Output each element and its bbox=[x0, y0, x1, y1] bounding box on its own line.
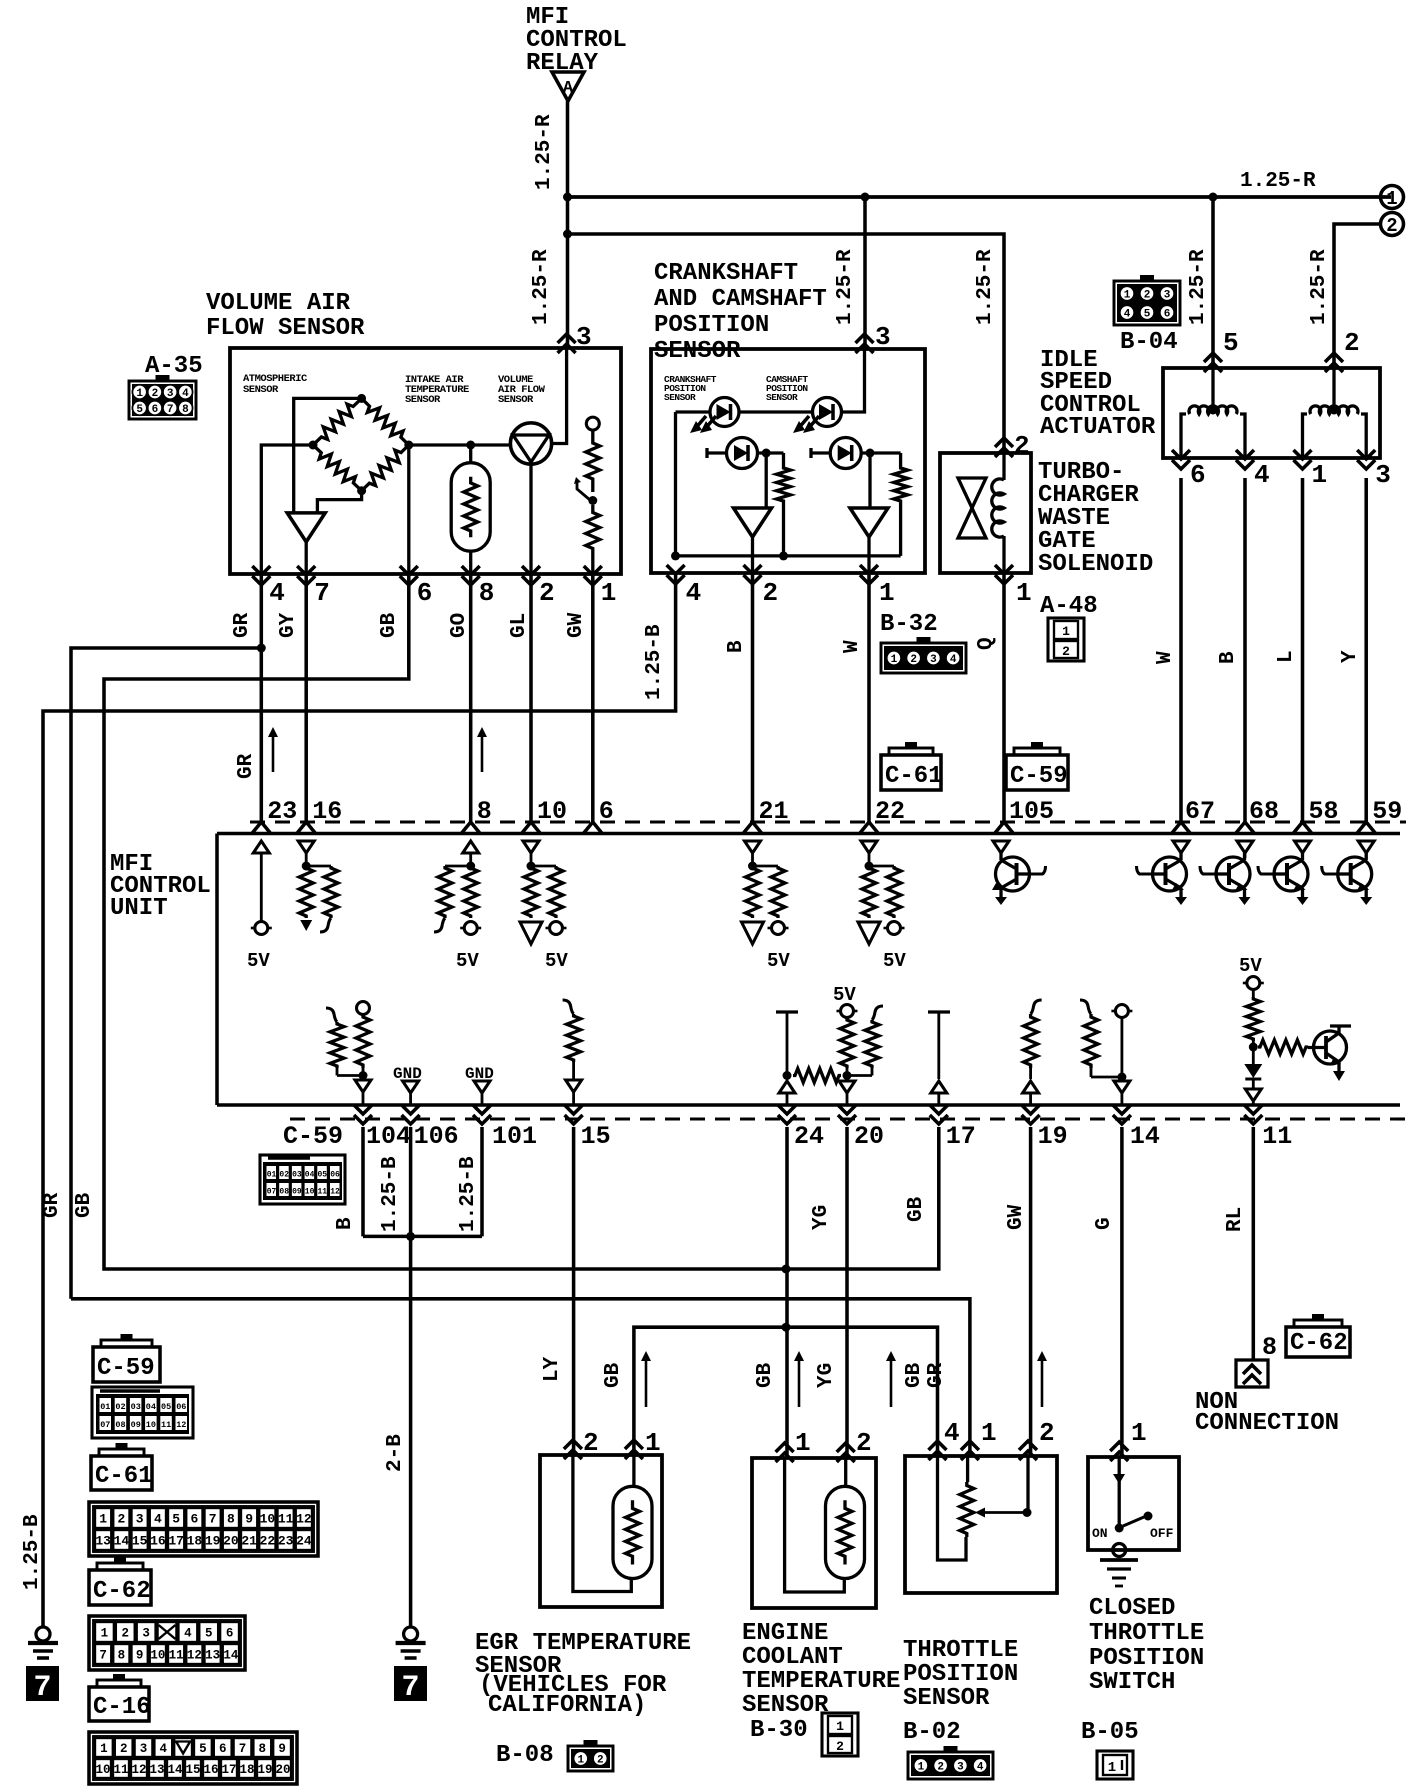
VAF pin 1 bbox=[584, 566, 617, 608]
svg-text:14: 14 bbox=[1130, 1122, 1160, 1151]
ISC pin 4 bbox=[1236, 450, 1270, 490]
svg-text:10: 10 bbox=[260, 1512, 276, 1527]
bridge resistor (top-right) bbox=[362, 398, 409, 445]
photodiode crank bbox=[727, 438, 758, 469]
wire 1.25-R to ISC pin 5 bbox=[1211, 197, 1215, 368]
terminal circle 2 bbox=[1381, 213, 1404, 236]
TPS wiper bbox=[975, 1508, 1032, 1518]
svg-text:CLOSED: CLOSED bbox=[1089, 1595, 1175, 1622]
volume air flow sensor title bbox=[206, 290, 365, 342]
VAF pin 7 bbox=[297, 566, 330, 608]
svg-text:1: 1 bbox=[136, 388, 143, 400]
svg-text:04: 04 bbox=[146, 1402, 156, 1412]
svg-text:2: 2 bbox=[597, 1754, 604, 1766]
pin 3 chevron (VAF) bbox=[558, 334, 576, 343]
MFI pin 21 bbox=[744, 797, 789, 833]
pin24-pin20 bias resistor bbox=[793, 1069, 841, 1083]
MFI control relay terminal A (triangle) bbox=[552, 72, 584, 101]
svg-text:B: B bbox=[725, 640, 748, 653]
svg-text:16: 16 bbox=[312, 797, 342, 826]
bridge top node bbox=[357, 394, 366, 403]
MFI pin 23 bbox=[252, 797, 297, 833]
svg-text:1: 1 bbox=[1131, 1418, 1147, 1448]
svg-text:GB: GB bbox=[378, 612, 401, 638]
svg-text:1: 1 bbox=[795, 1428, 811, 1458]
connector C-61 tag (list) bbox=[91, 1443, 153, 1490]
pin24 internal bbox=[776, 1012, 798, 1105]
pin68 internal transistor bbox=[1200, 841, 1253, 905]
svg-text:1.25-B: 1.25-B bbox=[379, 1156, 402, 1232]
svg-text:4: 4 bbox=[269, 578, 285, 608]
svg-text:VOLUME AIR: VOLUME AIR bbox=[206, 290, 351, 317]
svg-text:GB: GB bbox=[754, 1362, 777, 1388]
sensor ground bus (GB) bbox=[634, 1327, 938, 1456]
svg-text:5: 5 bbox=[1144, 308, 1151, 320]
MFI pin 20 bbox=[838, 1105, 884, 1151]
wire pin3 to LED rail bbox=[842, 349, 865, 412]
GR bus to TPS pin 1 bbox=[71, 1299, 970, 1456]
wire GO (VAF8 to pin8) bbox=[469, 574, 473, 822]
svg-text:59: 59 bbox=[1372, 797, 1402, 826]
pin106 GND bbox=[393, 1065, 422, 1105]
svg-text:14: 14 bbox=[114, 1534, 130, 1549]
volume air flow sensor box bbox=[230, 348, 621, 574]
svg-text:2: 2 bbox=[763, 578, 779, 608]
ground bus dot 1 bbox=[671, 551, 680, 560]
pin59 internal transistor bbox=[1322, 841, 1375, 905]
svg-text:3: 3 bbox=[875, 322, 891, 352]
TPS potentiometer bbox=[938, 1456, 1029, 1560]
waste gate valve symbol bbox=[958, 478, 986, 538]
atmospheric sensor amplifier (op-amp) bbox=[287, 513, 325, 542]
MFI unit outline bbox=[217, 834, 1400, 1106]
intake air temperature sensor label bbox=[405, 374, 469, 406]
svg-text:GB: GB bbox=[905, 1196, 928, 1222]
svg-text:4: 4 bbox=[686, 578, 702, 608]
svg-text:G: G bbox=[1093, 1217, 1116, 1230]
wire GB (VAF6 to left edge, GB bus) bbox=[104, 574, 939, 1269]
pin21 internal resistors bbox=[742, 841, 791, 972]
svg-text:6: 6 bbox=[152, 404, 159, 416]
wire Y (ISC3 to pin59) bbox=[1364, 478, 1368, 822]
svg-text:17: 17 bbox=[221, 1763, 236, 1777]
TPS box bbox=[905, 1456, 1057, 1593]
wire GY (VAF7 to pin16) bbox=[304, 574, 308, 822]
svg-text:1.25-R: 1.25-R bbox=[1240, 170, 1316, 193]
svg-text:04: 04 bbox=[305, 1171, 315, 1180]
light rays (cam) bbox=[793, 416, 819, 433]
MFI pin 24 bbox=[778, 1105, 824, 1151]
connector C-16 pin map (20 pin) bbox=[89, 1732, 297, 1784]
svg-text:GW: GW bbox=[565, 612, 588, 638]
main 1.25-R bus to terminal 1 bbox=[568, 195, 1392, 199]
svg-text:7: 7 bbox=[167, 404, 174, 416]
svg-text:3: 3 bbox=[1375, 460, 1391, 490]
ECT pin 1 bbox=[776, 1428, 811, 1462]
svg-text:8: 8 bbox=[182, 404, 189, 416]
svg-text:1: 1 bbox=[99, 1512, 107, 1527]
svg-text:POSITION: POSITION bbox=[654, 312, 769, 339]
svg-text:B: B bbox=[1217, 651, 1240, 664]
connector C-62 pin map (14 pin) bbox=[89, 1616, 245, 1670]
light rays (crank) bbox=[690, 416, 716, 433]
intake air temp thermistor bbox=[451, 445, 490, 574]
svg-text:9: 9 bbox=[136, 1649, 144, 1663]
crank load resistor bbox=[777, 453, 791, 556]
svg-text:101: 101 bbox=[492, 1122, 537, 1151]
svg-text:08: 08 bbox=[279, 1188, 289, 1197]
svg-text:5V: 5V bbox=[456, 950, 479, 972]
pin101 GND bbox=[465, 1065, 494, 1105]
wire L (ISC1 to pin58) bbox=[1301, 478, 1305, 822]
svg-text:B-02: B-02 bbox=[903, 1719, 961, 1746]
pin22 internal resistors bbox=[858, 841, 906, 972]
svg-text:21: 21 bbox=[759, 797, 789, 826]
svg-text:TEMPERATURE: TEMPERATURE bbox=[742, 1668, 900, 1695]
wire from terminal 2 to ISC pin 2 bbox=[1334, 224, 1380, 368]
EGR pin 1 bbox=[625, 1428, 661, 1459]
arrow up beside pin 23 wire bbox=[272, 735, 275, 772]
svg-text:Y: Y bbox=[1339, 650, 1362, 663]
svg-text:03: 03 bbox=[131, 1402, 141, 1412]
ground code 7 (right) bbox=[394, 1666, 427, 1701]
connector C-16 tag (list) bbox=[89, 1674, 151, 1721]
ground code 7 (left) bbox=[26, 1666, 59, 1701]
sensor ground bus bbox=[676, 554, 901, 557]
svg-text:02: 02 bbox=[279, 1171, 289, 1180]
svg-text:C-61: C-61 bbox=[95, 1463, 153, 1490]
pin16 internal resistors bbox=[298, 841, 338, 932]
svg-text:7: 7 bbox=[401, 1671, 419, 1705]
svg-text:GB: GB bbox=[903, 1362, 926, 1388]
wire to pin 6 bbox=[407, 445, 410, 574]
ISC coil left tap dot bbox=[1209, 406, 1218, 415]
connector B-04 bbox=[1114, 275, 1180, 356]
pin58 internal transistor bbox=[1258, 841, 1311, 905]
svg-text:14: 14 bbox=[223, 1649, 239, 1663]
svg-text:21: 21 bbox=[241, 1534, 257, 1549]
svg-text:11: 11 bbox=[161, 1420, 171, 1430]
switch ground bbox=[1100, 1560, 1138, 1586]
wire bridge left to pin 4 bbox=[261, 445, 313, 574]
VAF pin 4 bbox=[252, 566, 285, 608]
ground (2-B) bbox=[396, 1627, 426, 1658]
svg-text:11: 11 bbox=[1262, 1122, 1292, 1151]
svg-text:B-32: B-32 bbox=[880, 611, 938, 638]
ISC pin 1 bbox=[1294, 450, 1328, 490]
svg-text:GW: GW bbox=[1005, 1204, 1028, 1230]
svg-text:4: 4 bbox=[977, 1761, 984, 1773]
ECT sensor title bbox=[742, 1620, 900, 1719]
svg-text:08: 08 bbox=[115, 1420, 125, 1430]
svg-text:10: 10 bbox=[146, 1420, 156, 1430]
turbo pin 1 bbox=[995, 565, 1032, 608]
crank/cam sensor box bbox=[651, 349, 925, 573]
svg-text:19: 19 bbox=[1038, 1122, 1068, 1151]
pin14 internal bbox=[1080, 1000, 1132, 1105]
wire B (crank2 to pin21) bbox=[751, 574, 755, 822]
ECT sensor box bbox=[752, 1458, 876, 1608]
wire B (ISC4 to pin68) bbox=[1243, 478, 1247, 822]
svg-text:5: 5 bbox=[136, 404, 143, 416]
svg-text:2-B: 2-B bbox=[384, 1434, 407, 1472]
volume air flow sensor label bbox=[498, 374, 546, 406]
svg-text:02: 02 bbox=[115, 1402, 125, 1412]
svg-text:COOLANT: COOLANT bbox=[742, 1644, 843, 1671]
svg-text:A: A bbox=[563, 79, 574, 98]
svg-text:15: 15 bbox=[581, 1122, 611, 1151]
svg-text:10: 10 bbox=[150, 1649, 165, 1663]
svg-text:GY: GY bbox=[277, 612, 300, 638]
svg-text:1: 1 bbox=[981, 1418, 997, 1448]
svg-text:1.25-R: 1.25-R bbox=[834, 249, 857, 325]
svg-text:6: 6 bbox=[599, 797, 614, 826]
svg-text:5: 5 bbox=[199, 1742, 207, 1756]
svg-text:22: 22 bbox=[875, 797, 905, 826]
MFI control unit title bbox=[110, 851, 211, 922]
terminal circle 1 bbox=[1381, 186, 1404, 209]
svg-text:2: 2 bbox=[539, 578, 555, 608]
svg-text:2: 2 bbox=[152, 388, 159, 400]
svg-text:12: 12 bbox=[131, 1763, 146, 1777]
MFI pin 19 bbox=[1022, 1105, 1068, 1151]
wire LY pin15 to EGR pin2 bbox=[572, 1127, 576, 1455]
svg-text:RL: RL bbox=[1224, 1207, 1247, 1232]
wire GB pin24 to ECT pin1 bbox=[785, 1127, 789, 1458]
svg-text:19: 19 bbox=[257, 1763, 272, 1777]
svg-text:14: 14 bbox=[167, 1763, 183, 1777]
svg-text:CRANKSHAFT: CRANKSHAFT bbox=[654, 260, 798, 287]
crank sensor pin 2 bbox=[744, 565, 779, 608]
svg-text:GR: GR bbox=[41, 1192, 64, 1218]
svg-text:1: 1 bbox=[891, 654, 898, 666]
MFI pin 14 bbox=[1113, 1105, 1160, 1151]
svg-text:4: 4 bbox=[944, 1418, 960, 1448]
MFI pin 16 bbox=[297, 797, 342, 833]
wire Q (turbo1 to pin105) bbox=[1002, 574, 1006, 822]
svg-text:10: 10 bbox=[95, 1763, 110, 1777]
svg-text:11: 11 bbox=[278, 1512, 294, 1527]
svg-text:1: 1 bbox=[601, 578, 617, 608]
camshaft position sensor inner label bbox=[766, 374, 808, 403]
MFI top pin dashed row bbox=[250, 820, 1406, 823]
VAF pin 2 bbox=[522, 566, 555, 608]
svg-text:20: 20 bbox=[854, 1122, 884, 1151]
wire W (crank1 to pin22) bbox=[867, 574, 871, 822]
wire 1.25-R to crank sensor pin 3 bbox=[863, 197, 867, 349]
crank sensor pin 4 bbox=[667, 565, 702, 608]
svg-text:SENSOR: SENSOR bbox=[766, 392, 798, 403]
svg-text:8: 8 bbox=[479, 578, 495, 608]
crankshaft and camshaft position sensor title bbox=[654, 260, 827, 365]
svg-text:1.25-B: 1.25-B bbox=[21, 1514, 44, 1590]
turbo pin 2 chevron bbox=[995, 438, 1013, 447]
thermistor junction dot bbox=[466, 441, 475, 450]
pin19 internal resistor bbox=[1023, 1000, 1042, 1105]
LED cam bbox=[813, 398, 842, 427]
svg-text:2: 2 bbox=[910, 654, 917, 666]
svg-text:1.25-R: 1.25-R bbox=[1187, 249, 1210, 325]
svg-text:13: 13 bbox=[95, 1534, 111, 1549]
MFI pin 67 bbox=[1172, 797, 1215, 833]
connector B-02 bbox=[903, 1719, 993, 1779]
svg-text:LY: LY bbox=[541, 1356, 564, 1382]
EGR thermistor bbox=[613, 1486, 652, 1578]
svg-text:ENGINE: ENGINE bbox=[742, 1620, 828, 1647]
svg-text:C-59: C-59 bbox=[283, 1122, 343, 1151]
svg-text:5V: 5V bbox=[767, 950, 790, 972]
svg-text:1: 1 bbox=[1108, 1760, 1116, 1776]
crank photo to amp bbox=[758, 453, 784, 508]
svg-text:20: 20 bbox=[275, 1763, 290, 1777]
wire amp output to pin 7 bbox=[305, 542, 308, 574]
svg-text:23: 23 bbox=[278, 1534, 294, 1549]
air flow sensor symbol (circle/triangle) bbox=[510, 423, 551, 574]
MFI pin 11 bbox=[1244, 1105, 1292, 1151]
svg-text:GR: GR bbox=[231, 612, 254, 638]
svg-text:7: 7 bbox=[33, 1671, 51, 1705]
junction dot A bbox=[563, 193, 572, 202]
svg-text:5V: 5V bbox=[1239, 955, 1262, 977]
GR branch dot bbox=[257, 644, 266, 653]
svg-text:1: 1 bbox=[879, 578, 895, 608]
wire bridge top to amplifier bbox=[294, 398, 362, 513]
ISC pin 2 chevron bbox=[1325, 353, 1343, 362]
bridge resistor (bottom-left) bbox=[313, 445, 362, 491]
svg-text:11: 11 bbox=[169, 1649, 184, 1663]
wire 1.25-B (crank4 to left edge down) bbox=[43, 574, 676, 1627]
svg-text:2: 2 bbox=[117, 1512, 125, 1527]
svg-text:ACTUATOR: ACTUATOR bbox=[1040, 414, 1156, 441]
svg-text:24: 24 bbox=[794, 1122, 824, 1151]
svg-text:SOLENOID: SOLENOID bbox=[1038, 551, 1153, 578]
svg-text:24: 24 bbox=[296, 1534, 312, 1549]
connector C-59 mini map bbox=[260, 1155, 345, 1204]
svg-text:23: 23 bbox=[267, 797, 297, 826]
pin17 internal bbox=[928, 1012, 950, 1105]
TPS pin 1 bbox=[961, 1418, 997, 1460]
svg-text:8: 8 bbox=[227, 1512, 235, 1527]
MFI pin 58 bbox=[1294, 797, 1339, 833]
adjustable resistor upper bbox=[586, 430, 600, 492]
svg-text:5V: 5V bbox=[833, 984, 856, 1006]
svg-text:GO: GO bbox=[448, 613, 471, 638]
svg-text:1: 1 bbox=[836, 1719, 844, 1734]
wire bridge right node bus bbox=[409, 443, 511, 446]
svg-text:15: 15 bbox=[132, 1534, 148, 1549]
svg-text:1: 1 bbox=[1312, 460, 1328, 490]
svg-text:YG: YG bbox=[810, 1205, 833, 1230]
svg-text:6: 6 bbox=[219, 1742, 227, 1756]
wire G pin14 to switch pin1 bbox=[1120, 1127, 1124, 1457]
svg-text:2: 2 bbox=[1039, 1418, 1055, 1448]
svg-text:2: 2 bbox=[1386, 215, 1397, 237]
crank photo output dot bbox=[762, 449, 771, 458]
svg-text:4: 4 bbox=[950, 654, 957, 666]
connector A-48 bbox=[1040, 593, 1098, 661]
svg-text:1: 1 bbox=[1386, 188, 1397, 210]
svg-text:THROTTLE: THROTTLE bbox=[903, 1637, 1018, 1664]
svg-text:2: 2 bbox=[836, 1739, 844, 1754]
cam photo to amp bbox=[861, 453, 900, 508]
svg-text:01: 01 bbox=[100, 1402, 110, 1412]
svg-text:3: 3 bbox=[167, 388, 174, 400]
wire GW pin19 to TPS pin2 bbox=[1029, 1127, 1033, 1456]
wire GL (VAF2 to pin10) bbox=[529, 574, 533, 822]
svg-text:2: 2 bbox=[122, 1627, 130, 1641]
svg-text:1: 1 bbox=[1016, 578, 1032, 608]
pin11 internal bbox=[1239, 955, 1351, 1105]
svg-text:POSITION: POSITION bbox=[903, 1661, 1018, 1688]
connector C-61 pin map (24 pin) bbox=[89, 1502, 318, 1556]
svg-text:SENSOR: SENSOR bbox=[498, 394, 534, 406]
wire B/1.25-B pins 104-106-101 bus bbox=[363, 1127, 482, 1236]
svg-text:SENSOR: SENSOR bbox=[405, 394, 441, 406]
svg-text:YG: YG bbox=[815, 1363, 838, 1388]
svg-text:3: 3 bbox=[142, 1627, 150, 1641]
LED rail wires bbox=[676, 412, 814, 556]
non connection label bbox=[1195, 1389, 1339, 1437]
TPS pin 4 bbox=[929, 1418, 960, 1460]
svg-text:1.25-R: 1.25-R bbox=[533, 114, 556, 190]
svg-text:12: 12 bbox=[296, 1512, 312, 1527]
svg-text:5: 5 bbox=[1223, 328, 1239, 358]
connector B-32 bbox=[880, 611, 966, 673]
svg-text:L: L bbox=[1275, 650, 1298, 663]
pin67 internal transistor bbox=[1137, 841, 1190, 905]
svg-text:106: 106 bbox=[414, 1122, 459, 1151]
connector B-05 bbox=[1081, 1719, 1139, 1779]
svg-text:01: 01 bbox=[267, 1171, 277, 1180]
svg-text:1: 1 bbox=[918, 1761, 925, 1773]
bridge resistor (top-left) bbox=[313, 398, 362, 445]
ISC actuator box bbox=[1163, 368, 1380, 458]
svg-text:4: 4 bbox=[1254, 460, 1270, 490]
svg-text:CALIFORNIA): CALIFORNIA) bbox=[488, 1692, 646, 1719]
svg-text:6: 6 bbox=[1190, 460, 1206, 490]
svg-text:2: 2 bbox=[583, 1428, 599, 1458]
photodiode cam stub bbox=[811, 448, 830, 458]
wire 1.25-R from relay down to VAF pin 3 bbox=[566, 101, 570, 348]
svg-text:2: 2 bbox=[120, 1742, 128, 1756]
wire 2-B down to ground bbox=[409, 1236, 413, 1627]
svg-text:SENSOR: SENSOR bbox=[742, 1692, 829, 1719]
EGR sensor box bbox=[540, 1455, 662, 1607]
svg-text:C-59: C-59 bbox=[97, 1355, 155, 1382]
svg-text:07: 07 bbox=[100, 1420, 110, 1430]
cam photo output dot bbox=[866, 449, 875, 458]
svg-text:8: 8 bbox=[118, 1649, 126, 1663]
svg-text:UNIT: UNIT bbox=[110, 895, 168, 922]
svg-text:8: 8 bbox=[259, 1742, 267, 1756]
pin104 internal resistors bbox=[326, 1002, 371, 1106]
svg-text:10: 10 bbox=[305, 1188, 315, 1197]
svg-text:B: B bbox=[334, 1217, 357, 1230]
ISC coil right bbox=[1303, 368, 1367, 458]
wire cam amp out to pin 1 bbox=[867, 537, 870, 573]
switch pin 1 bbox=[1110, 1418, 1146, 1461]
TPS title bbox=[903, 1637, 1018, 1712]
arrow up beside pin 8 wire bbox=[481, 735, 484, 772]
LED crank bbox=[710, 398, 739, 427]
EGR sensor title bbox=[475, 1630, 691, 1719]
svg-text:20: 20 bbox=[223, 1534, 239, 1549]
svg-text:GR: GR bbox=[925, 1362, 948, 1388]
MFI pin 104 bbox=[354, 1105, 411, 1151]
svg-text:10: 10 bbox=[537, 797, 567, 826]
svg-text:15: 15 bbox=[185, 1763, 200, 1777]
svg-text:06: 06 bbox=[330, 1171, 340, 1180]
